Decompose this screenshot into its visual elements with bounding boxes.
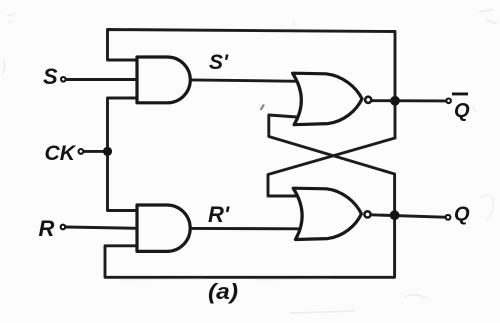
NOR gate G2 (bottom, output Q) — [293, 188, 361, 239]
terminal: S input — [61, 77, 66, 82]
terminal: Qbar output — [446, 99, 451, 104]
wire: CK stub from terminal to junction — [84, 150, 107, 153]
terminal: R input — [61, 225, 66, 230]
AND gate A1 (top, S·CK) — [137, 57, 190, 103]
svg-text:CK: CK — [45, 142, 77, 165]
node: CK junction — [103, 147, 112, 156]
svg-text:S': S' — [209, 51, 229, 74]
NOR gate G2 output bubble — [364, 211, 370, 217]
wire: cross-coupling from Qbar vertical to lower NOR upper input — [268, 138, 395, 196]
wire: S input to top AND gate — [67, 78, 138, 81]
svg-text:R': R' — [208, 202, 230, 227]
scan artifact speck near top NOR input — [261, 105, 265, 111]
svg-text:Q: Q — [454, 100, 470, 122]
node: Qbar junction — [390, 96, 400, 106]
node: Q junction — [390, 210, 400, 220]
wire: Qbar node to output terminal — [372, 99, 446, 102]
wire: CK riser joining both AND gates — [108, 98, 138, 211]
overbar of Qbar — [452, 93, 468, 96]
wire: R input to bottom AND gate — [66, 227, 137, 228]
wire: Q node to output terminal — [371, 215, 445, 217]
wire: top NOR lower input cross-coupled down to Q node — [269, 115, 395, 216]
wire: top feedback rail from Qbar node to top AND gate top input — [108, 30, 396, 139]
svg-text:S: S — [43, 64, 58, 89]
wire: S' from top AND output to top NOR upper input — [190, 80, 300, 81]
AND gate A2 (bottom, R·CK) — [137, 205, 190, 251]
svg-text:Q: Q — [454, 204, 470, 226]
NOR gate G1 (top, output Qbar) — [293, 73, 362, 125]
svg-text:(a): (a) — [208, 279, 238, 304]
scan smudges (decorative) — [7, 14, 14, 22]
terminal: Q output — [446, 215, 451, 220]
wire: bottom feedback rail from Q node to bottom AND gate bottom input — [105, 215, 395, 277]
NOR gate G1 output bubble — [365, 97, 371, 103]
terminal: CK input — [79, 149, 84, 154]
wire: R' from bottom AND output to bottom NOR lower input — [191, 227, 301, 230]
svg-text:R: R — [39, 216, 55, 241]
